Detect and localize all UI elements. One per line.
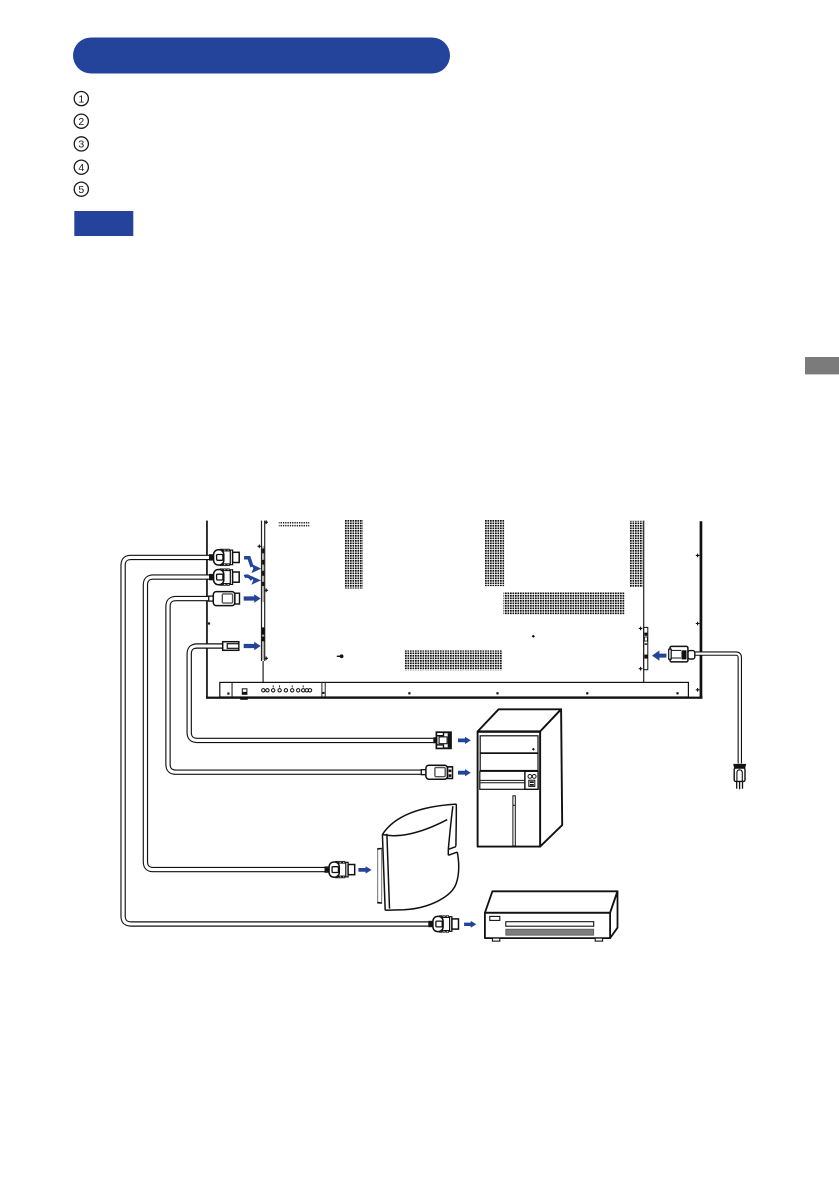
media player foot right: [595, 938, 602, 941]
AC wall plug: [733, 764, 746, 789]
svg-text:5: 5: [78, 184, 84, 196]
control button ticks: [273, 685, 303, 687]
cable 2 to game console: [145, 577, 324, 870]
control bar divider 3: [325, 682, 326, 697]
arrow into computer port 1: [458, 737, 471, 744]
strip screw 3: [264, 589, 268, 593]
page tab: [805, 357, 839, 374]
right edge screw 3: [696, 688, 700, 692]
media player tray: [506, 922, 594, 927]
drive bay 1 led: [532, 748, 535, 751]
connector strip gray fill: [262, 546, 264, 602]
panel floppy icon: [529, 780, 535, 786]
back panel screw B: [532, 635, 535, 638]
control bar divider screw: [322, 692, 324, 694]
vent strip 3: [630, 521, 643, 588]
strip screw top: [264, 520, 268, 524]
cable 3 to computer dp port: [168, 599, 422, 773]
monitor rear panel bottom edge: [206, 697, 702, 699]
arrow step into port 1: [244, 558, 261, 573]
computer front panel: [525, 771, 538, 789]
panel circles: [528, 775, 536, 779]
arrow into computer port 2: [458, 769, 471, 776]
HDMI plug at game console: [325, 861, 355, 877]
cable 4 to computer usb port: [189, 646, 433, 740]
strip screw 4: [264, 657, 268, 661]
power switch icon: [242, 689, 247, 695]
bar screws: [227, 692, 678, 695]
svg-text:2: 2: [78, 116, 84, 128]
cable 1 to media player: [123, 557, 428, 924]
computer drive bay 2: [480, 753, 538, 770]
svg-text:1: 1: [78, 93, 84, 105]
list number 2: [74, 114, 88, 128]
computer bay 3 slot: [480, 771, 525, 789]
list number 4: [74, 160, 88, 174]
HDMI plug P1 at monitor: [209, 549, 239, 565]
back panel screw C with tick: [337, 654, 344, 658]
vent wide lower: [404, 650, 502, 670]
IEC power plug at monitor: [669, 646, 695, 662]
right edge screw 1: [696, 554, 700, 558]
control buttons: [262, 689, 312, 692]
right edge screw 2: [696, 622, 700, 626]
media player display: [506, 929, 594, 935]
computer drive bay 1: [480, 736, 538, 753]
game console body: [382, 804, 458, 910]
computer center slot: [513, 796, 515, 846]
connector strip lower line: [263, 661, 264, 683]
DisplayPort plug P3 at monitor: [209, 592, 240, 606]
power cord: [695, 654, 740, 764]
arrow into port 3: [244, 594, 261, 603]
media player power button: [490, 916, 500, 920]
control bar divider 1: [232, 682, 233, 697]
HDMI plug at media player: [428, 916, 458, 932]
computer front top edge: [478, 730, 540, 732]
connector strip right line: [264, 521, 265, 661]
power inlet screw top: [639, 627, 643, 631]
vent strip 2: [485, 520, 505, 587]
vent strip 1: [344, 520, 363, 589]
USB plug P4 at monitor: [223, 642, 239, 651]
top dotted vent: [279, 522, 310, 527]
header pill: [73, 38, 450, 74]
arrow wave into port 2: [244, 576, 261, 585]
vent wide middle: [504, 592, 625, 614]
list number 3: [74, 137, 88, 151]
power inlet bracket: [644, 627, 648, 669]
note box: [74, 211, 133, 236]
bay 3 slot line: [480, 780, 525, 782]
monitor inner right line: [643, 521, 644, 682]
arrow into power inlet: [652, 650, 666, 660]
media player foot left: [492, 938, 499, 941]
list number 5: [74, 182, 88, 196]
back panel screw A: [208, 622, 210, 624]
stand tab: [240, 697, 248, 700]
control bar: [220, 682, 689, 697]
svg-text:3: 3: [78, 139, 84, 151]
list number 1: [74, 92, 88, 106]
strip screw 2: [258, 545, 262, 549]
game console stand tab: [377, 848, 381, 903]
computer tower body: [478, 709, 563, 846]
arrow into port 4: [244, 642, 261, 651]
control bar divider 2: [321, 682, 322, 697]
power inlet screw bottom: [639, 667, 643, 671]
svg-text:4: 4: [78, 162, 84, 174]
displayport plug at computer: [421, 765, 452, 779]
connector strip left line: [261, 521, 262, 661]
media player body: [485, 891, 618, 938]
HDMI plug P2 at monitor: [209, 569, 239, 585]
usb-b plug at computer: [433, 732, 451, 748]
monitor rear panel left edge: [206, 521, 208, 698]
arrow into game console: [358, 866, 371, 873]
connector strip port marks: [262, 549, 265, 642]
arrow into media player: [464, 921, 476, 928]
monitor rear panel right edge: [700, 521, 703, 697]
